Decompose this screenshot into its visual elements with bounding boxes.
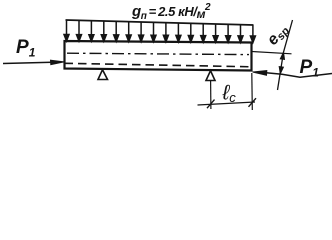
beam axis (dash-dot centerline)	[67, 53, 249, 54]
support triangle left	[98, 70, 108, 80]
load arrows (16 downward arrows)	[64, 20, 255, 42]
beam outline	[65, 41, 252, 71]
support triangle right	[206, 71, 215, 81]
l_c tick left	[207, 100, 215, 109]
force P1 right arrow	[253, 71, 332, 78]
distributed load label g_p = 2.5 kN/m2	[131, 2, 211, 22]
axis extension line (right)	[252, 52, 292, 54]
load line (top of distributed load)	[66, 20, 254, 25]
l_c tick right	[249, 98, 257, 107]
extension line below right support	[210, 81, 212, 109]
l_c dimension line	[198, 102, 256, 105]
extension line below beam right end	[251, 73, 254, 110]
force P1 left arrow	[3, 60, 64, 64]
e_sp dimension line (slanted)	[278, 20, 293, 90]
dashed tendon line (line of action of P1)	[65, 63, 252, 67]
